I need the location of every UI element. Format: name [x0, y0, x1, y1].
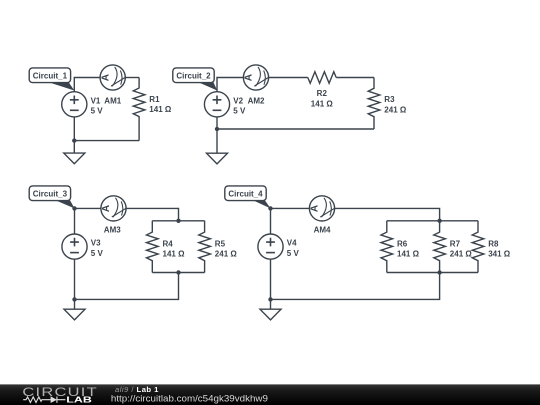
svg-text:A: A	[310, 205, 321, 212]
svg-text:Circuit_1: Circuit_1	[33, 72, 68, 81]
voltage source V1	[62, 92, 87, 117]
wire: R2 to R3 top corner	[336, 77, 374, 79]
wire: V2 top to AM2 left	[217, 78, 243, 92]
label AM4	[314, 225, 331, 234]
junction dot circuit 3 node	[72, 206, 76, 210]
label V3 value	[91, 239, 104, 258]
svg-text:R3: R3	[384, 95, 395, 104]
svg-text:R4: R4	[163, 239, 174, 248]
svg-text:141 Ω: 141 Ω	[311, 99, 334, 108]
wire: ground stub circuit 4	[270, 299, 272, 309]
wire: ground stub circuit 2	[216, 129, 218, 153]
junction dot circuit 4 node	[268, 206, 272, 210]
resistor R4	[147, 221, 186, 273]
resistor R7	[434, 221, 473, 273]
junction dot circuit 3 bottom bar	[176, 270, 180, 274]
resistor R1	[133, 78, 172, 141]
wire: bottom rail circuit 1	[74, 140, 139, 142]
wire: V1 top to AM1 left	[74, 78, 100, 92]
ground GND3	[64, 309, 85, 320]
node label Circuit_1 (callout flag)	[29, 68, 74, 91]
label AM2	[248, 96, 265, 105]
wire: V4 top stub	[270, 208, 272, 234]
node label Circuit_4 (callout flag)	[225, 186, 271, 209]
junction dot circuit 4 rail	[268, 297, 272, 301]
svg-text:R8: R8	[488, 239, 499, 248]
svg-text:5 V: 5 V	[233, 107, 246, 116]
ammeter AM2	[243, 65, 268, 90]
junction dot circuit 3 top bar	[176, 219, 180, 223]
wire: bottom bar circuit 3	[152, 272, 204, 274]
svg-text:AM1: AM1	[104, 96, 121, 105]
wire: AM2 right to R2	[269, 77, 308, 79]
wire: AM4 right to parallel bank top	[335, 208, 440, 220]
svg-text:A: A	[244, 74, 255, 81]
wire: ground stub circuit 1	[73, 141, 75, 154]
wire: V1 bottom stub	[73, 117, 75, 141]
junction dot circuit 1 ground node	[72, 138, 76, 142]
svg-text:http://circuitlab.com/c54gk39v: http://circuitlab.com/c54gk39vdkhw9	[111, 394, 268, 404]
ground GND1	[64, 153, 85, 164]
svg-text:141 Ω: 141 Ω	[149, 105, 172, 114]
svg-text:241 Ω: 241 Ω	[215, 250, 238, 259]
wire: top bar circuit 3	[152, 220, 204, 222]
wire: bottom rail circuit 2	[217, 128, 374, 130]
svg-text:R2: R2	[317, 89, 328, 98]
label V2 value	[233, 96, 246, 115]
node label Circuit_3 (callout flag)	[29, 186, 74, 209]
ammeter AM1	[100, 65, 125, 90]
svg-text:Circuit_3: Circuit_3	[33, 190, 68, 199]
label AM3	[104, 225, 121, 234]
resistor R8	[472, 221, 511, 273]
wire: V3 top stub	[74, 208, 76, 234]
label V1 value	[91, 96, 104, 115]
wire: ground stub circuit 3	[74, 299, 76, 309]
svg-text:V3: V3	[91, 239, 101, 248]
resistor R6	[381, 221, 420, 273]
svg-text:R7: R7	[450, 239, 461, 248]
ammeter AM4	[309, 196, 334, 221]
wire: bank bottom to rail circuit 4	[271, 273, 440, 300]
wire: bank bottom to rail circuit 3	[75, 273, 179, 300]
voltage source V3	[62, 234, 87, 259]
wire: V4 bottom stub	[270, 259, 272, 299]
svg-text:V2: V2	[233, 96, 243, 105]
svg-text:AM3: AM3	[104, 225, 121, 234]
ground GND4	[260, 309, 281, 320]
CircuitLab logo wordmark	[22, 385, 98, 405]
label AM1	[104, 96, 121, 105]
voltage source V4	[258, 234, 283, 259]
svg-text:Circuit_2: Circuit_2	[176, 72, 211, 81]
svg-text:5 V: 5 V	[287, 249, 300, 258]
resistor R2	[308, 72, 336, 109]
junction dot circuit 4 top bar	[437, 219, 441, 223]
junction dot circuit 3 rail	[72, 297, 76, 301]
wire: AM1 right to R1 top	[125, 77, 139, 79]
resistor R5	[199, 221, 238, 273]
svg-text:141 Ω: 141 Ω	[163, 250, 186, 259]
ammeter AM3	[101, 196, 126, 221]
svg-text:R5: R5	[215, 239, 226, 248]
svg-text:141 Ω: 141 Ω	[397, 250, 420, 259]
wire: V2 bottom stub	[216, 117, 218, 129]
wire: node to AM4 left	[271, 207, 310, 209]
svg-text:A: A	[101, 205, 112, 212]
footer title text	[111, 385, 268, 404]
svg-text:R6: R6	[397, 239, 408, 248]
resistor R3	[368, 78, 407, 130]
wire: top bar circuit 4	[387, 220, 478, 222]
junction dot circuit 4 bottom bar	[437, 270, 441, 274]
wire: AM3 right to parallel bank top	[126, 208, 178, 220]
svg-text:241 Ω: 241 Ω	[384, 105, 407, 114]
wire: bottom bar circuit 4	[387, 272, 478, 274]
svg-text:R1: R1	[149, 95, 160, 104]
svg-text:241 Ω: 241 Ω	[450, 250, 473, 259]
junction dot circuit 2 ground node	[215, 127, 219, 131]
svg-text:Circuit_4: Circuit_4	[228, 190, 263, 199]
wire: V3 bottom stub	[74, 259, 76, 299]
svg-text:5 V: 5 V	[91, 107, 104, 116]
wire: node to AM3 left	[75, 207, 101, 209]
label V4 value	[287, 239, 300, 258]
svg-text:AM2: AM2	[248, 96, 265, 105]
voltage source V2	[204, 92, 229, 117]
svg-text:5 V: 5 V	[91, 249, 104, 258]
svg-text:341 Ω: 341 Ω	[488, 250, 511, 259]
svg-text:V1: V1	[91, 96, 101, 105]
node label Circuit_2 (callout flag)	[173, 68, 217, 91]
svg-text:A: A	[100, 74, 111, 81]
svg-text:AM4: AM4	[314, 225, 331, 234]
svg-text:LAB: LAB	[66, 395, 92, 404]
svg-text:V4: V4	[287, 239, 297, 248]
ground GND2	[207, 153, 228, 164]
